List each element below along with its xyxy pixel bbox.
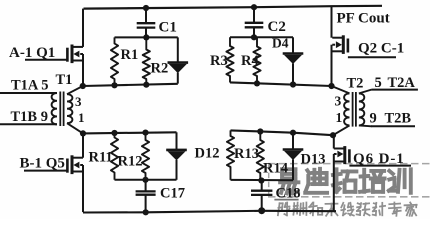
- svg-text:R2: R2: [151, 61, 169, 77]
- svg-text:A-1 Q1: A-1 Q1: [9, 45, 55, 61]
- svg-text:PF Cout: PF Cout: [337, 11, 390, 27]
- svg-text:D13: D13: [301, 152, 326, 168]
- svg-text:T2B: T2B: [385, 111, 412, 127]
- svg-text:T1A 5: T1A 5: [11, 77, 48, 93]
- svg-text:R1: R1: [121, 47, 139, 63]
- svg-text:R14: R14: [263, 161, 288, 177]
- svg-text:D12: D12: [195, 146, 220, 162]
- svg-text:T1B 9: T1B 9: [11, 109, 48, 125]
- svg-text:Q6 D-1: Q6 D-1: [353, 151, 405, 167]
- svg-text:5: 5: [375, 75, 382, 91]
- svg-text:B-1 Q5: B-1 Q5: [20, 155, 65, 171]
- svg-text:R4: R4: [241, 53, 259, 69]
- svg-text:9: 9: [370, 110, 377, 126]
- svg-text:T2A: T2A: [388, 75, 416, 91]
- svg-text:R11: R11: [89, 150, 113, 166]
- svg-text:3: 3: [75, 94, 82, 109]
- svg-text:C2: C2: [268, 19, 286, 35]
- svg-text:3: 3: [335, 93, 342, 108]
- svg-text:1: 1: [336, 110, 343, 125]
- svg-text:R13: R13: [234, 146, 259, 162]
- svg-text:1: 1: [78, 110, 85, 125]
- svg-text:Q2 C-1: Q2 C-1: [358, 40, 404, 56]
- svg-text:C1: C1: [159, 20, 177, 36]
- svg-text:T2: T2: [347, 76, 364, 92]
- svg-text:R12: R12: [118, 154, 143, 170]
- svg-text:C17: C17: [160, 186, 185, 202]
- svg-text:T1: T1: [56, 72, 73, 88]
- svg-text:D4: D4: [272, 36, 289, 51]
- svg-text:R3: R3: [210, 53, 228, 69]
